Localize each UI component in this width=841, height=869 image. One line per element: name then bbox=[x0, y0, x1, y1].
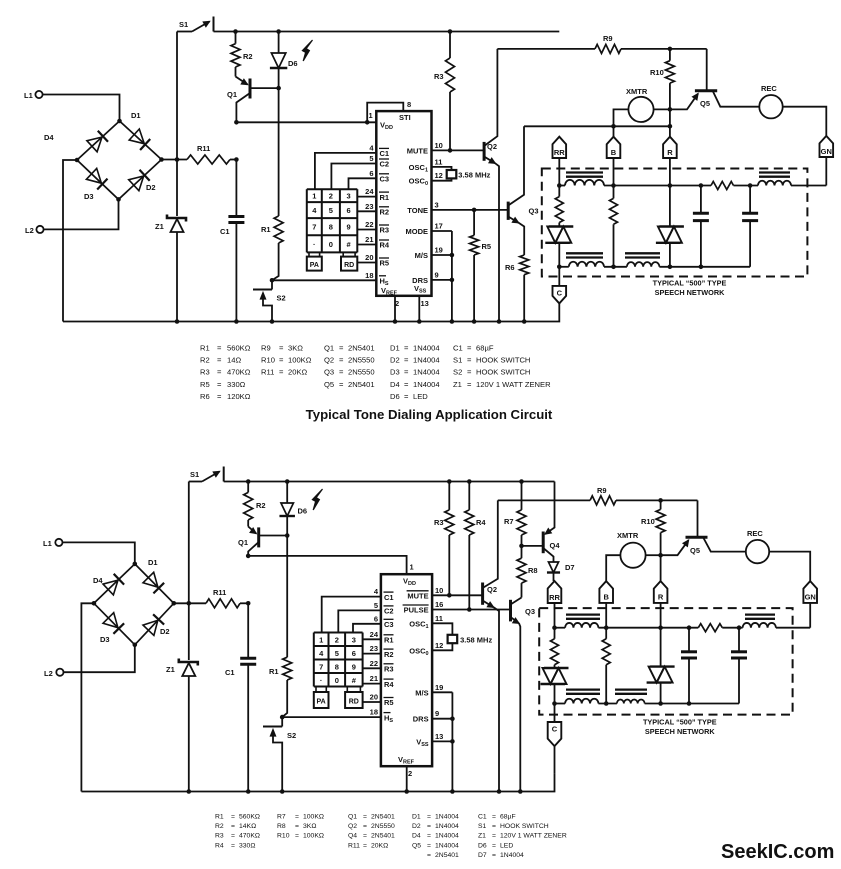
svg-text:470KΩ: 470KΩ bbox=[227, 368, 251, 377]
svg-text:C3: C3 bbox=[384, 620, 394, 629]
svg-text:Z1: Z1 bbox=[478, 833, 486, 840]
wire R1 row bbox=[357, 196, 376, 198]
node R4 top (lower) bbox=[467, 479, 472, 484]
svg-text:4: 4 bbox=[319, 649, 324, 658]
svg-text:D1: D1 bbox=[412, 814, 421, 821]
wire top rail bbox=[214, 31, 560, 33]
svg-text:C1: C1 bbox=[453, 344, 463, 353]
microphone XMTR bbox=[628, 97, 653, 122]
svg-text:120KΩ: 120KΩ bbox=[227, 392, 251, 401]
node R9 / R10 bbox=[668, 47, 673, 52]
svg-text:D7: D7 bbox=[565, 563, 575, 572]
svg-text:D6: D6 bbox=[288, 59, 298, 68]
svg-text:=: = bbox=[279, 368, 284, 377]
wire MS/DRS/VSS to rail (lower) bbox=[451, 692, 453, 791]
wire XMTR left to B (lower) bbox=[606, 555, 620, 581]
resistor R11 bbox=[162, 159, 188, 161]
svg-text:2N5550: 2N5550 bbox=[348, 356, 375, 365]
svg-text:1N4004: 1N4004 bbox=[413, 344, 440, 353]
wire DRS bbox=[432, 279, 452, 281]
svg-text:R1: R1 bbox=[269, 667, 279, 676]
wire R10 node to R terminal bbox=[669, 109, 671, 136]
node R9 / R10 (lower) bbox=[658, 498, 663, 503]
svg-text:R9: R9 bbox=[597, 486, 607, 495]
svg-text:VDD: VDD bbox=[403, 577, 416, 588]
svg-text:3: 3 bbox=[352, 635, 356, 644]
svg-text:Q1: Q1 bbox=[324, 344, 334, 353]
svg-text:·: · bbox=[313, 240, 316, 249]
svg-text:=: = bbox=[217, 356, 222, 365]
svg-text:16: 16 bbox=[435, 600, 443, 609]
svg-text:PULSE: PULSE bbox=[404, 606, 429, 615]
wire MUTE to Q2 base bbox=[432, 149, 484, 151]
svg-text:3.58 MHz: 3.58 MHz bbox=[460, 636, 492, 645]
svg-text:C2: C2 bbox=[380, 160, 390, 169]
svg-text:3: 3 bbox=[435, 200, 439, 209]
transformer T2 core bbox=[759, 171, 790, 173]
node R11 right / C1 (lower) bbox=[246, 601, 251, 606]
svg-text:=: = bbox=[363, 823, 367, 830]
transistor Q3 bbox=[507, 202, 510, 220]
transistor Q5 (lower) bbox=[686, 536, 708, 539]
junction on bottom rail bbox=[417, 319, 422, 324]
junction on bottom rail bbox=[393, 319, 398, 324]
svg-text:12: 12 bbox=[435, 641, 443, 650]
inductor T4 winding bbox=[627, 262, 660, 267]
svg-text:=: = bbox=[492, 814, 496, 821]
svg-text:8: 8 bbox=[329, 223, 333, 232]
svg-text:560KΩ: 560KΩ bbox=[227, 344, 251, 353]
varistor RV2 bbox=[659, 225, 684, 227]
svg-text:100KΩ: 100KΩ bbox=[303, 833, 324, 840]
wire L1 to bridge (lower) bbox=[63, 542, 135, 564]
resistor R3 (lower) bbox=[448, 482, 450, 510]
svg-text:=: = bbox=[363, 842, 367, 849]
svg-text:D3: D3 bbox=[84, 192, 94, 201]
diode D2 bbox=[129, 176, 144, 191]
wire PULSE to Q3 base (lower) bbox=[432, 609, 510, 611]
svg-text:R8: R8 bbox=[528, 566, 538, 575]
node TONE / R5 bbox=[472, 208, 477, 213]
keypad matrix (lower) bbox=[314, 632, 363, 634]
terminal GN (lower) bbox=[803, 581, 817, 603]
wire bridge left to rail (lower) bbox=[81, 603, 94, 791]
junction speech top line (lower) bbox=[687, 625, 692, 630]
terminal C bbox=[553, 286, 567, 304]
svg-text:Q5: Q5 bbox=[324, 380, 334, 389]
svg-text:R3: R3 bbox=[434, 72, 444, 81]
junction on bottom rail (lower) bbox=[280, 789, 285, 794]
svg-text:1: 1 bbox=[410, 563, 414, 572]
junction on bottom rail bbox=[270, 319, 275, 324]
svg-text:20KΩ: 20KΩ bbox=[371, 842, 388, 849]
svg-text:R3: R3 bbox=[200, 368, 210, 377]
wire R9 corner to Q5 bbox=[706, 49, 708, 91]
svg-text:VDD: VDD bbox=[380, 121, 393, 132]
node bridge right (lower) bbox=[172, 601, 177, 606]
diode D2 (lower) bbox=[143, 620, 158, 635]
junction on bottom rail (lower) bbox=[187, 789, 192, 794]
svg-text:68µF: 68µF bbox=[476, 344, 494, 353]
svg-text:R2: R2 bbox=[256, 501, 266, 510]
svg-text:14Ω: 14Ω bbox=[227, 356, 241, 365]
svg-text:=: = bbox=[231, 823, 235, 830]
node DRS junction (lower) bbox=[450, 716, 455, 721]
svg-text:24: 24 bbox=[365, 187, 374, 196]
resistor B branch bbox=[613, 186, 615, 199]
node bridge top (lower) bbox=[133, 562, 138, 567]
svg-text:OSC1: OSC1 bbox=[409, 163, 428, 174]
keypad RD button (lower) bbox=[345, 692, 363, 708]
svg-text:470KΩ: 470KΩ bbox=[239, 833, 260, 840]
wire R2 row bbox=[357, 210, 376, 212]
svg-text:D4: D4 bbox=[44, 133, 54, 142]
switch S1 (lower) bbox=[189, 481, 202, 483]
speech network dashed box (lower) bbox=[539, 608, 792, 715]
node MUTE / R3 (lower) bbox=[447, 593, 452, 598]
svg-text:7: 7 bbox=[319, 662, 323, 671]
svg-text:Q3: Q3 bbox=[529, 207, 539, 216]
node Q1 collector / VDD wire bbox=[234, 120, 239, 125]
svg-text:Q5: Q5 bbox=[690, 546, 700, 555]
svg-text:2N5401: 2N5401 bbox=[435, 852, 459, 859]
svg-text:24: 24 bbox=[370, 630, 379, 639]
wire L1 to bridge bbox=[43, 95, 120, 122]
svg-text:6: 6 bbox=[369, 169, 373, 178]
receiver REC bbox=[759, 95, 782, 118]
svg-text:R3: R3 bbox=[384, 665, 394, 674]
wire L2 to bridge (lower) bbox=[64, 645, 135, 672]
svg-text:=: = bbox=[427, 842, 431, 849]
svg-text:R1: R1 bbox=[384, 636, 394, 645]
svg-text:R11: R11 bbox=[197, 144, 210, 153]
svg-text:R1: R1 bbox=[200, 344, 210, 353]
svg-text:MODE: MODE bbox=[406, 227, 429, 236]
node PULSE / R4 (lower) bbox=[467, 607, 472, 612]
svg-text:MUTE: MUTE bbox=[407, 146, 428, 155]
svg-text:22: 22 bbox=[365, 220, 373, 229]
svg-text:560KΩ: 560KΩ bbox=[239, 814, 260, 821]
wire C2 column bbox=[331, 164, 376, 190]
inductor T1 winding (lower) bbox=[565, 623, 598, 628]
svg-text:18: 18 bbox=[370, 708, 378, 717]
svg-text:C1: C1 bbox=[220, 227, 230, 236]
wire VREF pin 2 to rail bbox=[394, 296, 396, 322]
svg-text:S2: S2 bbox=[277, 294, 286, 303]
svg-text:D2: D2 bbox=[146, 183, 156, 192]
svg-text:D4: D4 bbox=[93, 576, 103, 585]
wire top rail (lower) bbox=[224, 481, 555, 483]
junction on bottom rail bbox=[175, 319, 180, 324]
node STI tie bbox=[365, 120, 370, 125]
terminal C (lower) bbox=[548, 722, 562, 746]
wire R3 row bbox=[357, 229, 376, 231]
wire R branch down (lower) bbox=[660, 683, 662, 704]
svg-text:2N5401: 2N5401 bbox=[371, 814, 395, 821]
resistor R10 bbox=[669, 49, 671, 61]
inductor T2 winding (lower) bbox=[743, 623, 776, 628]
resistor in speech line bbox=[711, 182, 734, 190]
junction on bottom rail bbox=[234, 319, 239, 324]
svg-text:M/S: M/S bbox=[415, 688, 428, 697]
svg-text:=: = bbox=[339, 344, 344, 353]
svg-text:R4: R4 bbox=[476, 518, 486, 527]
wire XMTR left to B bbox=[614, 109, 629, 136]
svg-text:9: 9 bbox=[347, 223, 351, 232]
svg-text:B: B bbox=[603, 593, 609, 602]
diode bridge frame (lower) bbox=[94, 564, 174, 645]
resistor R2 bbox=[235, 32, 237, 44]
svg-text:Typical Tone Dialing Applicati: Typical Tone Dialing Application Circuit bbox=[306, 407, 553, 422]
wire L2 to bridge bbox=[44, 199, 119, 229]
wire GN down (lower) bbox=[809, 603, 811, 628]
wire speech bottom line bbox=[559, 266, 569, 268]
wire Q3 collector line bbox=[524, 125, 670, 127]
diode D7 bbox=[548, 562, 558, 573]
wire MODE/MS/DRS to rail bbox=[451, 231, 453, 322]
wire R10 node to R terminal (lower) bbox=[660, 555, 662, 581]
transistor Q1 (lower) bbox=[257, 527, 260, 547]
svg-text:100KΩ: 100KΩ bbox=[303, 814, 324, 821]
svg-text:R11: R11 bbox=[348, 842, 360, 849]
junction on bottom rail bbox=[472, 319, 477, 324]
transformer T1 core (lower) bbox=[566, 613, 600, 615]
svg-text:R4: R4 bbox=[215, 842, 224, 849]
svg-text:=: = bbox=[427, 823, 431, 830]
node D6 top (lower) bbox=[285, 479, 290, 484]
svg-text:=: = bbox=[231, 833, 235, 840]
svg-text:#: # bbox=[347, 240, 352, 249]
transformer T3 core bbox=[566, 252, 603, 254]
svg-text:7: 7 bbox=[312, 223, 316, 232]
svg-text:RR: RR bbox=[549, 593, 560, 602]
transformer T4 core (lower) bbox=[615, 688, 647, 690]
resistor R1 (lower) bbox=[286, 536, 288, 658]
svg-text:S2: S2 bbox=[453, 368, 462, 377]
resistor R9 bbox=[497, 48, 595, 50]
svg-text:20: 20 bbox=[365, 253, 373, 262]
wire B down (lower) bbox=[605, 603, 607, 628]
junction speech top line (lower) bbox=[552, 625, 557, 630]
svg-text:LED: LED bbox=[500, 842, 513, 849]
varistor RV1 bbox=[549, 225, 574, 227]
svg-text:=: = bbox=[404, 368, 409, 377]
svg-text:R10: R10 bbox=[261, 356, 275, 365]
svg-text:C1: C1 bbox=[384, 593, 394, 602]
svg-text:D4: D4 bbox=[390, 380, 400, 389]
wire HS to S2 bbox=[272, 279, 376, 281]
node R7 top (lower) bbox=[519, 479, 524, 484]
svg-text:19: 19 bbox=[435, 246, 443, 255]
svg-text:R10: R10 bbox=[641, 517, 655, 526]
svg-text:R5: R5 bbox=[384, 698, 394, 707]
svg-text:R11: R11 bbox=[261, 368, 274, 377]
wire XMTR right (lower) bbox=[646, 554, 661, 556]
wire R down (lower) bbox=[660, 603, 662, 628]
svg-text:REC: REC bbox=[761, 84, 777, 93]
wire R branch (lower) bbox=[660, 628, 662, 667]
svg-text:13: 13 bbox=[435, 732, 443, 741]
svg-text:68µF: 68µF bbox=[500, 814, 516, 821]
svg-text:D2: D2 bbox=[390, 356, 400, 365]
svg-text:D1: D1 bbox=[131, 111, 141, 120]
inductor T3 winding bbox=[569, 262, 604, 267]
svg-text:23: 23 bbox=[365, 202, 373, 211]
wire R9 corner to Q5 (lower) bbox=[697, 500, 699, 537]
transistor Q2 bbox=[483, 142, 486, 161]
svg-text:=: = bbox=[339, 368, 344, 377]
resistor R4 (lower) bbox=[468, 482, 470, 510]
svg-text:2N5401: 2N5401 bbox=[348, 344, 375, 353]
svg-text:1: 1 bbox=[319, 635, 323, 644]
op-amp IC U1 body bbox=[376, 111, 431, 296]
wire R1 row (lower) bbox=[363, 638, 381, 640]
svg-text:8: 8 bbox=[335, 662, 339, 671]
wire VSS pin 13 to rail bbox=[418, 296, 420, 322]
wire VDD to IC pin 1 bbox=[236, 121, 376, 123]
svg-text:=: = bbox=[492, 833, 496, 840]
svg-text:9: 9 bbox=[352, 662, 356, 671]
svg-text:C: C bbox=[552, 725, 558, 734]
wire VSS (lower) bbox=[432, 740, 452, 742]
svg-text:120V 1 WATT ZENER: 120V 1 WATT ZENER bbox=[476, 380, 551, 389]
svg-text:=: = bbox=[492, 852, 496, 859]
junction speech bottom line (lower) bbox=[552, 701, 557, 706]
svg-text:PA: PA bbox=[316, 699, 325, 706]
inductor T2 winding bbox=[758, 181, 791, 186]
junction speech top line bbox=[668, 183, 673, 188]
varistor RV1 (lower) bbox=[544, 667, 569, 669]
resistor in speech line (lower) bbox=[698, 624, 722, 632]
junction speech top line bbox=[699, 183, 704, 188]
svg-text:4: 4 bbox=[374, 587, 379, 596]
svg-text:R7: R7 bbox=[277, 814, 286, 821]
svg-text:1: 1 bbox=[369, 111, 373, 120]
node Q1 base / D6 line bbox=[276, 86, 281, 91]
svg-text:HS: HS bbox=[380, 277, 389, 288]
svg-text:=: = bbox=[427, 814, 431, 821]
svg-text:L1: L1 bbox=[24, 91, 33, 100]
svg-text:Q1: Q1 bbox=[227, 90, 237, 99]
wire XMTR right bbox=[654, 108, 670, 110]
transistor Q1 bbox=[249, 79, 252, 99]
svg-text:C1: C1 bbox=[380, 149, 390, 158]
receiver REC (lower) bbox=[746, 540, 769, 563]
svg-text:D4: D4 bbox=[412, 833, 421, 840]
svg-text:R2: R2 bbox=[243, 52, 253, 61]
svg-text:R7: R7 bbox=[504, 517, 514, 526]
svg-text:10: 10 bbox=[435, 586, 443, 595]
wire speech bottom line (lower) bbox=[555, 703, 566, 705]
junction speech top line (lower) bbox=[737, 625, 742, 630]
diode D3 (lower) bbox=[103, 613, 118, 628]
svg-text:=: = bbox=[217, 380, 222, 389]
resistor R5 bbox=[473, 210, 475, 235]
svg-text:D3: D3 bbox=[100, 635, 110, 644]
node R7 / Q4 base (lower) bbox=[519, 544, 524, 549]
svg-text:TYPICAL “500” TYPE: TYPICAL “500” TYPE bbox=[643, 718, 717, 727]
svg-text:R1: R1 bbox=[261, 225, 271, 234]
svg-text:R: R bbox=[667, 148, 673, 157]
svg-text:=: = bbox=[404, 392, 409, 401]
svg-text:RR: RR bbox=[554, 148, 565, 157]
svg-text:GN: GN bbox=[805, 593, 816, 602]
svg-text:1N4004: 1N4004 bbox=[500, 852, 524, 859]
svg-text:Q5: Q5 bbox=[412, 842, 421, 849]
svg-text:2N5550: 2N5550 bbox=[371, 823, 395, 830]
svg-text:5: 5 bbox=[374, 601, 378, 610]
capacitor speech 2 bbox=[749, 186, 751, 214]
svg-text:R8: R8 bbox=[277, 823, 286, 830]
capacitor speech 1 bbox=[700, 186, 702, 214]
node bridge top bbox=[117, 119, 122, 124]
svg-text:=: = bbox=[279, 356, 284, 365]
svg-text:14KΩ: 14KΩ bbox=[239, 823, 256, 830]
resistor R9 (lower) bbox=[498, 499, 590, 501]
wire RR branch down bbox=[558, 243, 560, 267]
svg-text:19: 19 bbox=[435, 683, 443, 692]
node R3 top bbox=[448, 29, 453, 34]
svg-text:OSC1: OSC1 bbox=[409, 619, 428, 630]
svg-text:=: = bbox=[231, 842, 235, 849]
wire M/S (lower) bbox=[432, 691, 452, 693]
junction on bottom rail (lower) bbox=[497, 789, 502, 794]
svg-text:Q4: Q4 bbox=[550, 541, 561, 550]
transistor Q3 (lower) bbox=[509, 600, 512, 622]
wire bridge left to ground rail bbox=[63, 160, 77, 322]
svg-text:21: 21 bbox=[365, 235, 373, 244]
node bridge bottom (lower) bbox=[133, 643, 138, 648]
node S2 top / HS wire (lower) bbox=[280, 715, 285, 720]
zener Z1 (lower) bbox=[188, 603, 190, 660]
node R3 top (lower) bbox=[447, 479, 452, 484]
svg-text:=: = bbox=[467, 368, 472, 377]
node R11 left / Z1 (lower) bbox=[187, 601, 192, 606]
svg-text:2N5550: 2N5550 bbox=[348, 368, 375, 377]
wire REC to GN (lower) bbox=[769, 552, 810, 582]
wire RR down bbox=[558, 158, 560, 186]
svg-text:100KΩ: 100KΩ bbox=[288, 356, 312, 365]
svg-text:S1: S1 bbox=[453, 356, 462, 365]
node M/S junction bbox=[450, 253, 455, 258]
svg-text:C1: C1 bbox=[225, 668, 235, 677]
wire RR down (lower) bbox=[554, 603, 556, 628]
svg-text:R4: R4 bbox=[380, 241, 390, 250]
svg-text:Z1: Z1 bbox=[155, 222, 164, 231]
svg-text:TONE: TONE bbox=[407, 206, 428, 215]
terminal R bbox=[663, 137, 677, 158]
svg-text:XMTR: XMTR bbox=[626, 87, 648, 96]
svg-text:Q2: Q2 bbox=[487, 142, 497, 151]
svg-text:=: = bbox=[427, 833, 431, 840]
svg-text:=: = bbox=[217, 344, 222, 353]
svg-text:1N4004: 1N4004 bbox=[435, 814, 459, 821]
keypad PA button (lower) bbox=[314, 692, 329, 708]
svg-text:Z1: Z1 bbox=[453, 380, 462, 389]
switch S1 bbox=[177, 31, 192, 33]
svg-text:=: = bbox=[404, 344, 409, 353]
junction speech top line (lower) bbox=[658, 625, 663, 630]
node XMTR left on Q3 line bbox=[611, 124, 616, 129]
wire MODE bbox=[432, 230, 452, 232]
keypad matrix bbox=[307, 188, 358, 190]
transformer T3 core (lower) bbox=[566, 688, 600, 690]
wire speech top line bbox=[559, 185, 565, 187]
svg-text:=: = bbox=[295, 833, 299, 840]
svg-text:VREF: VREF bbox=[398, 755, 415, 766]
svg-text:20: 20 bbox=[370, 693, 378, 702]
node R11 left / Z1 bbox=[175, 157, 180, 162]
